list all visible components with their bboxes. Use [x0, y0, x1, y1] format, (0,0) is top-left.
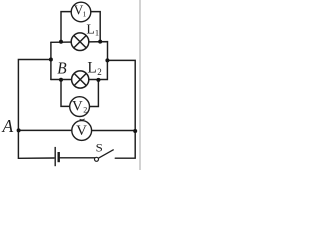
switch S pivot: [95, 157, 99, 161]
junction dot node A on left rail: [17, 128, 21, 132]
svg-text:L: L: [86, 21, 94, 36]
junction dot L2 row / V2 left: [59, 78, 63, 82]
wire: L1 row and corner down to node at y60: [51, 42, 108, 61]
wire: vertical through node B: [50, 42, 52, 79]
voltmeter V1: [71, 2, 91, 22]
label L2: [87, 59, 101, 77]
stray arc mark above voltmeter V: [80, 119, 85, 120]
scan edge line (right margin): [139, 0, 141, 170]
lamp L2: [72, 71, 89, 88]
voltmeter V2: [70, 97, 90, 117]
wire: node B to left rail, left rail down, bottom-left segment: [18, 60, 54, 159]
svg-text:1: 1: [83, 10, 87, 19]
junction dot L2 row / V2 right: [96, 78, 100, 82]
voltmeter V: [72, 121, 92, 141]
svg-text:V: V: [76, 123, 87, 139]
battery cell: short thick plate: [58, 152, 60, 162]
wire: battery to switch segment: [60, 157, 95, 159]
switch S lever: [98, 150, 113, 159]
wire: V1 right lead down to L1 row: [90, 12, 100, 42]
svg-text:V: V: [72, 99, 83, 115]
junction dot at V1 right / L1 row: [98, 40, 102, 44]
svg-text:1: 1: [95, 29, 99, 38]
svg-text:S: S: [96, 141, 103, 155]
svg-text:2: 2: [83, 105, 87, 114]
svg-text:2: 2: [97, 67, 102, 77]
battery cell: long plate: [54, 147, 56, 166]
wire: main V row left segment from node A: [19, 129, 72, 131]
svg-text:B: B: [57, 58, 67, 77]
svg-text:A: A: [2, 116, 14, 136]
label L1: [86, 21, 99, 37]
junction dot at V1 left / L1 row: [59, 40, 63, 44]
wire: V1 left lead down to L1 row: [61, 12, 71, 42]
wire: V2 right branch: [89, 80, 98, 107]
svg-text:L: L: [87, 59, 96, 76]
wire: link from node to right rail, right rail, bottom-right segment: [107, 60, 135, 158]
junction dot right link node: [105, 58, 109, 62]
wire: main V row right segment to right rail: [92, 130, 136, 132]
junction dot main V row / right rail: [133, 129, 137, 133]
junction dot node B: [49, 58, 53, 62]
wire: L2 row with corner up to node: [51, 60, 108, 79]
wire: V2 left branch: [61, 80, 70, 107]
lamp L1: [71, 33, 89, 51]
